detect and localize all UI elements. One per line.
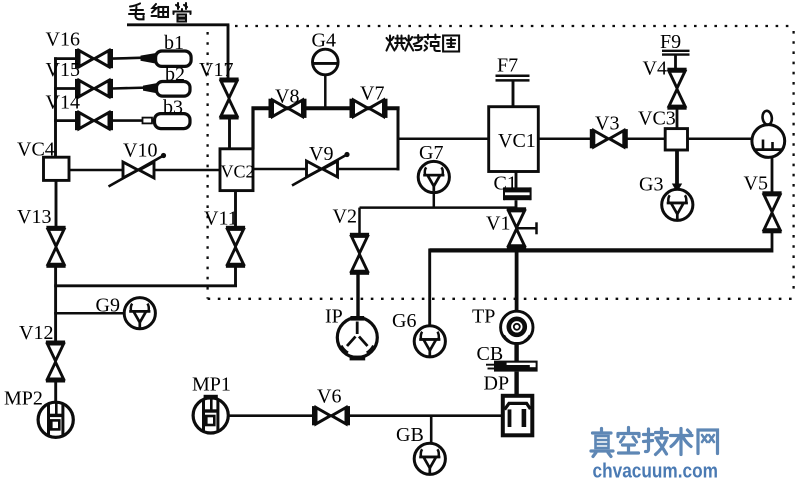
wire stub to V16 xyxy=(54,57,76,60)
wire branch line y=207.6 xyxy=(360,206,517,209)
valve V2 xyxy=(350,233,369,275)
wire V17 to VC2 top xyxy=(228,118,231,149)
svg-text:GB: GB xyxy=(396,424,424,446)
capillary line (under 毛细管 label) xyxy=(127,23,229,26)
wire V11 down to cross line xyxy=(234,266,237,287)
svg-text:V14: V14 xyxy=(46,91,80,113)
svg-text:F7: F7 xyxy=(497,54,518,76)
chamber VC4 xyxy=(44,157,70,180)
wire stub to V15 xyxy=(54,87,76,90)
wire VC2 bottom to V11 xyxy=(234,191,237,228)
wire G9 stem xyxy=(54,312,125,315)
watermark 真空技术网 blue brush strokes xyxy=(591,428,718,457)
diffusion pump DP xyxy=(503,396,533,436)
wire V3 to VC3 xyxy=(627,137,666,140)
wire CB to DP xyxy=(514,372,518,395)
svg-text:IP: IP xyxy=(325,305,343,327)
wire VC2 right through V9 xyxy=(253,168,399,171)
wire corner down to VC2 top right xyxy=(251,107,254,150)
pump MP1 xyxy=(193,398,228,433)
chamber VC1 xyxy=(489,107,539,172)
svg-text:CB: CB xyxy=(477,343,504,365)
svg-text:V15: V15 xyxy=(46,59,80,81)
svg-text:G4: G4 xyxy=(312,30,336,52)
wire left rail (valve stack down to VC4) xyxy=(54,57,57,157)
valve V3 xyxy=(590,129,628,148)
wire VC1 right to V3 xyxy=(538,137,591,140)
wire GB stem xyxy=(430,416,433,444)
wire V5 down to manifold xyxy=(771,231,774,253)
bulb b1 xyxy=(156,51,192,66)
wire MP1 to V6 to DP xyxy=(228,414,502,417)
valve V6 xyxy=(312,406,350,425)
gauge G7 xyxy=(418,161,449,192)
wire main manifold xyxy=(430,248,773,252)
wire V14 to b3 xyxy=(113,119,156,122)
chamber VC3 xyxy=(665,129,687,150)
wire capillary down to V17 xyxy=(227,25,230,79)
svg-text:b3: b3 xyxy=(163,97,183,119)
b2 inlet neck xyxy=(143,83,158,93)
baffle CB xyxy=(486,361,538,372)
wire F7 stem xyxy=(512,80,515,108)
wire C1 to V1 junction xyxy=(515,200,518,212)
flange F9 xyxy=(662,50,690,52)
svg-text:V17: V17 xyxy=(199,59,233,81)
valve V4 xyxy=(667,68,686,110)
svg-text:F9: F9 xyxy=(660,31,681,53)
wire VC3 down to G3 with arrow xyxy=(675,150,679,188)
valve V11 xyxy=(226,226,245,268)
wire TP stem from manifold xyxy=(515,250,519,312)
svg-text:G9: G9 xyxy=(96,294,120,316)
svg-text:V2: V2 xyxy=(333,205,357,227)
valve V12 xyxy=(46,341,65,383)
valve V8 xyxy=(269,99,307,118)
wire V2 down to IP xyxy=(356,272,359,318)
valve V5 xyxy=(762,191,781,233)
valve V14 xyxy=(75,111,113,130)
turbo pump TP xyxy=(501,311,533,343)
wire V1 to manifold xyxy=(515,247,518,253)
svg-text:V6: V6 xyxy=(317,385,341,407)
bake-out boundary dashed top xyxy=(208,26,794,299)
svg-text:V1: V1 xyxy=(486,212,510,234)
trap C1 xyxy=(504,187,531,192)
label 烘烤范围 (bake-out range) hand-drawn strokes xyxy=(387,35,460,52)
svg-text:b2: b2 xyxy=(165,63,185,85)
wire F9 stem xyxy=(674,55,677,71)
gauge G4 xyxy=(313,49,339,75)
svg-text:VC1: VC1 xyxy=(498,130,536,152)
svg-text:MP2: MP2 xyxy=(4,387,43,409)
wire thick top loop line V8/V7 xyxy=(252,106,400,110)
wire V4 to VC3 xyxy=(676,107,679,129)
svg-text:G7: G7 xyxy=(419,142,443,164)
label 毛细管 (capillary) hand-drawn strokes xyxy=(129,3,191,22)
wire pump down to V5 xyxy=(771,157,774,194)
wire VC4 down to V13 xyxy=(55,180,58,228)
svg-text:VC2: VC2 xyxy=(221,161,255,181)
svg-text:DP: DP xyxy=(484,372,510,394)
valve V16 xyxy=(75,49,113,68)
svg-text:V7: V7 xyxy=(360,83,384,105)
svg-text:V12: V12 xyxy=(19,322,53,344)
svg-text:V5: V5 xyxy=(744,172,768,194)
wire to VC1 left xyxy=(398,137,490,140)
flange F7 xyxy=(496,75,530,78)
gauge G6 xyxy=(414,326,445,357)
b1 inlet neck xyxy=(141,53,157,64)
wire VC3 right to sublimation pump xyxy=(688,137,754,140)
svg-text:V9: V9 xyxy=(309,143,333,165)
svg-text:V4: V4 xyxy=(643,57,667,79)
pump MP2 xyxy=(38,402,73,437)
valve V15 xyxy=(75,79,113,98)
svg-text:V8: V8 xyxy=(275,85,299,107)
wire cross line y287 to V11 xyxy=(54,284,237,287)
svg-text:V10: V10 xyxy=(123,139,157,161)
ion pump IP xyxy=(337,316,377,360)
wire manifold left corner down to G6 xyxy=(428,249,431,327)
chamber VC2 xyxy=(220,149,253,191)
wire right loop vertical x398 xyxy=(397,107,400,171)
svg-text:V16: V16 xyxy=(46,28,80,50)
svg-text:C1: C1 xyxy=(494,172,517,194)
valve V7 xyxy=(350,99,388,118)
wire VC4 to V10 to VC2 xyxy=(69,169,220,172)
wire G7 stem xyxy=(433,193,436,208)
needle valve V9 xyxy=(292,152,350,186)
gauge G3 xyxy=(662,189,693,220)
bake-out boundary dashed left xyxy=(206,32,208,299)
svg-text:chvacuum.com: chvacuum.com xyxy=(593,460,719,483)
bake-out boundary dashed right xyxy=(792,31,794,295)
wire V12 to MP2 xyxy=(54,381,57,404)
svg-text:V3: V3 xyxy=(595,113,619,135)
bulb b2 xyxy=(157,82,191,97)
svg-text:V13: V13 xyxy=(17,206,51,228)
b3 inlet fitting xyxy=(143,118,153,124)
valve V17 xyxy=(219,78,238,120)
svg-text:G3: G3 xyxy=(639,173,663,195)
svg-text:G6: G6 xyxy=(392,310,416,332)
needle valve V10 xyxy=(109,153,167,187)
svg-text:V11: V11 xyxy=(204,207,238,229)
bulb b3 xyxy=(155,114,191,129)
wire V13 down + left rail lower xyxy=(54,266,57,343)
svg-text:TP: TP xyxy=(472,306,495,328)
gauge GB xyxy=(414,443,445,474)
bake-out boundary dashed bottom xyxy=(208,298,794,300)
svg-text:VC4: VC4 xyxy=(17,139,55,161)
valve V1 with handle xyxy=(507,207,526,249)
svg-text:VC3: VC3 xyxy=(638,108,676,130)
wire G4 stem xyxy=(324,73,327,108)
wire V15 to b2 xyxy=(113,88,150,89)
wire V16 to b1 xyxy=(113,58,148,59)
wire stub to V14 xyxy=(54,119,76,122)
wire V2 stem up xyxy=(358,208,361,235)
valve V13 xyxy=(46,226,65,268)
sublimation pump (top right) xyxy=(752,125,785,158)
wire TP to CB xyxy=(514,342,518,361)
gauge G9 xyxy=(124,298,155,329)
svg-text:MP1: MP1 xyxy=(192,373,231,395)
svg-text:b1: b1 xyxy=(164,32,184,54)
wire VC1 bottom to C1 xyxy=(515,172,518,189)
